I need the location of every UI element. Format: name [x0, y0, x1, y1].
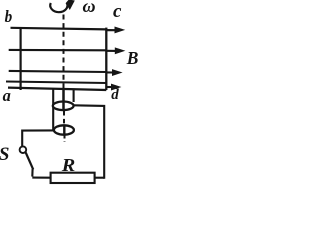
- field line B1 (top side bc of coil) with arrowhead: [11, 28, 118, 30]
- rotation arc arrowhead: [66, 0, 75, 10]
- switch S blade: [26, 153, 34, 170]
- svg-text:a: a: [3, 86, 12, 105]
- wire from coil bottom to slip ring 1 (right lead): [73, 89, 75, 103]
- coil side ad (bottom edge): [8, 88, 106, 90]
- field line B3 with arrowhead: [9, 71, 114, 73]
- svg-text:ω: ω: [83, 0, 96, 16]
- arrowhead of field line B2: [115, 47, 126, 54]
- slip ring 1: [53, 102, 74, 111]
- field line B4: [6, 82, 106, 84]
- shaft tick through ring 2 (solid): [63, 127, 65, 134]
- shaft through ring 1 (solid): [62, 89, 65, 110]
- rotation axis (dashed): [63, 15, 65, 89]
- svg-text:R: R: [61, 155, 76, 175]
- wire from coil bottom to slip rings (left lead): [52, 89, 54, 131]
- background paper: [0, 0, 138, 190]
- right riser wire up to ring 1 brush: [74, 105, 105, 178]
- switch S terminal circle: [20, 146, 27, 153]
- arrowhead of field line B1: [115, 27, 126, 34]
- field line B2 with arrowhead: [9, 50, 117, 51]
- arrowhead of field line B3: [112, 69, 123, 76]
- wire ring 2 to switch (brush lead left): [22, 130, 53, 146]
- slip ring 2: [54, 125, 74, 134]
- svg-text:c: c: [113, 1, 122, 22]
- wire resistor to right riser: [95, 177, 105, 179]
- coil side cd (right edge): [105, 28, 107, 90]
- svg-text:B: B: [126, 48, 138, 68]
- coil side ab (left edge): [20, 27, 22, 90]
- svg-text:b: b: [5, 7, 13, 26]
- arrowhead line B4 exit: [106, 86, 113, 88]
- rotation direction arc: [50, 3, 67, 12]
- rotation axis below ring 2 (dashed): [64, 135, 66, 143]
- wire switch to resistor: [32, 177, 50, 179]
- rotation axis between slip rings (dashed): [63, 111, 65, 127]
- svg-text:S: S: [0, 144, 9, 165]
- switch lower lead: [31, 169, 33, 177]
- svg-text:d: d: [111, 87, 119, 103]
- resistor R box: [51, 173, 95, 183]
